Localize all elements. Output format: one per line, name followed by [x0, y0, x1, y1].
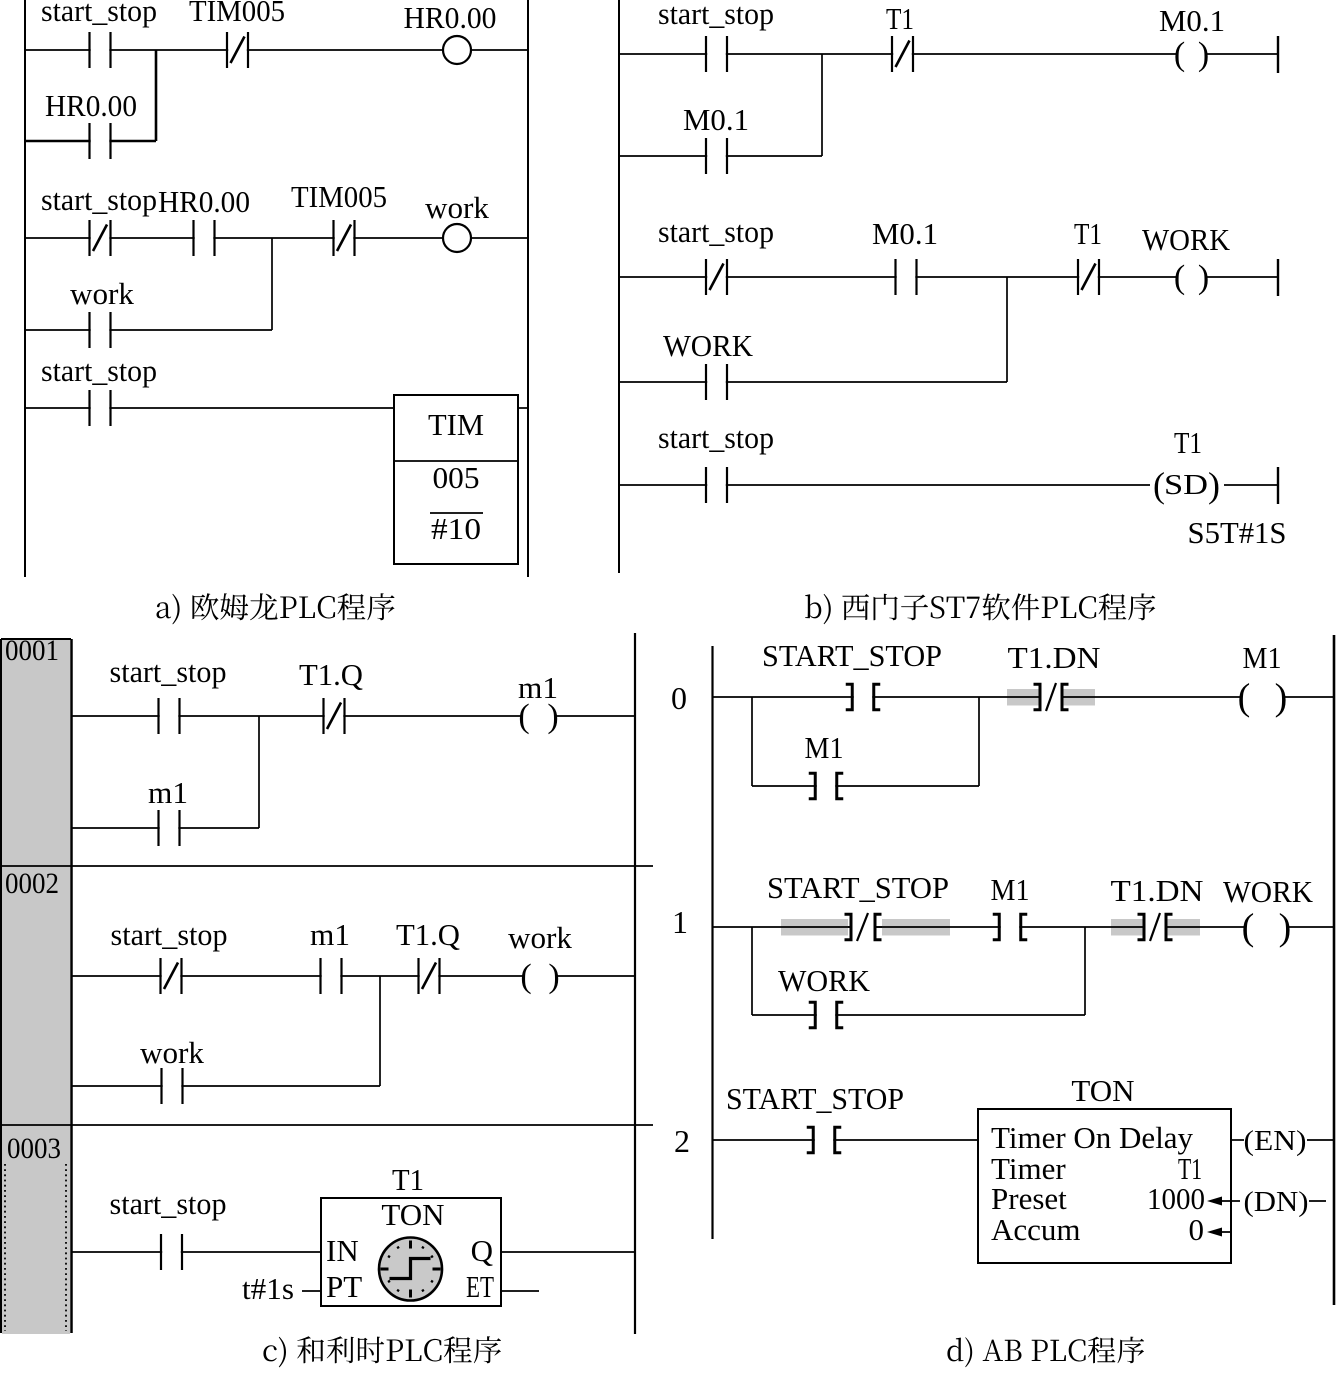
svg-text:(: (: [520, 958, 531, 995]
svg-text:T1.DN: T1.DN: [1008, 640, 1101, 675]
rung d1 wire: [713, 926, 1335, 928]
svg-text:(DN): (DN): [1244, 1186, 1309, 1218]
rung a3 wire: [25, 407, 394, 409]
contact start_stop NC (b2): [706, 259, 727, 295]
coil work (a2): [443, 224, 471, 252]
contact start_stop NC (a2): [90, 220, 111, 256]
branch wire work (c2): [71, 1085, 380, 1087]
svg-text:S5T#1S: S5T#1S: [1188, 515, 1287, 550]
dash t#1s to PT: [302, 1290, 321, 1292]
svg-text:Accum: Accum: [991, 1212, 1081, 1247]
svg-text:ET: ET: [466, 1269, 494, 1304]
svg-text:TON: TON: [381, 1197, 444, 1232]
contact start_stop NC (c2): [161, 958, 182, 994]
svg-text:T1: T1: [1074, 216, 1102, 251]
branch vertical (c2): [379, 976, 381, 1086]
svg-text:start_stop: start_stop: [110, 654, 227, 689]
network separator 1: [0, 865, 653, 867]
contact TIM005 NC (a1): [227, 32, 248, 68]
grey column dotted inner borders (network 0003): [5, 1164, 66, 1331]
svg-text:m1: m1: [518, 670, 558, 705]
svg-text:0001: 0001: [5, 635, 59, 667]
rung c3 wire to TON: [72, 1251, 322, 1253]
svg-text:): ): [1275, 677, 1288, 719]
contact m1 NO (c1 branch): [159, 810, 180, 846]
branch vertical right (d1): [1084, 927, 1086, 1015]
svg-text:(: (: [1242, 907, 1255, 949]
svg-text:#10: #10: [431, 511, 481, 546]
svg-text:work: work: [70, 276, 134, 311]
branch vertical right (d0): [978, 697, 980, 786]
svg-text:0003: 0003: [7, 1133, 61, 1165]
svg-text:start_stop: start_stop: [41, 353, 157, 388]
right rail bar (b1): [1277, 36, 1279, 73]
TON function block T1: [321, 1198, 501, 1306]
contact M0.1 NO (b2): [896, 259, 917, 295]
contact WORK NO (d1 branch): [809, 1002, 844, 1028]
svg-text:START_STOP: START_STOP: [726, 1081, 904, 1116]
contact start_stop NO (b3): [706, 467, 727, 503]
contact WORK NO (b2 branch): [706, 364, 727, 400]
contact START_STOP NO (d0): [846, 684, 881, 710]
rung a1 wire: [25, 49, 528, 51]
contact start_stop NO (b1): [706, 36, 727, 72]
svg-text:START_STOP: START_STOP: [762, 638, 942, 673]
svg-text:2: 2: [674, 1123, 690, 1159]
contact T1.DN NC highlighted (d1): [1111, 913, 1200, 941]
svg-text:M0.1: M0.1: [683, 102, 749, 137]
contact start_stop NO (c3): [161, 1234, 182, 1270]
rung b2 wire: [619, 276, 1278, 278]
TON block Timer On Delay: [978, 1109, 1231, 1263]
svg-text:work: work: [508, 920, 572, 955]
contact start_stop NO (c1): [159, 698, 180, 734]
svg-text:005: 005: [433, 460, 480, 495]
svg-text:TIM: TIM: [428, 407, 484, 442]
svg-text:start_stop: start_stop: [41, 182, 157, 217]
svg-text:WORK: WORK: [1223, 874, 1314, 909]
contact T1 NC (b1): [892, 36, 913, 72]
svg-text:WORK: WORK: [663, 328, 754, 363]
branch vertical (b1): [821, 54, 823, 156]
svg-text:(: (: [1174, 36, 1185, 73]
contact start_stop NO (a1): [90, 32, 111, 68]
branch vertical left (d0): [751, 697, 753, 786]
branch vertical (a2): [271, 238, 273, 330]
timer clock icon: [379, 1238, 442, 1301]
svg-text:m1: m1: [148, 775, 188, 810]
svg-text:): ): [1198, 259, 1209, 296]
branch vertical (c1): [258, 716, 260, 828]
svg-text:PT: PT: [326, 1269, 362, 1304]
svg-text:): ): [1279, 907, 1292, 949]
contact m1 NO (c2): [321, 958, 342, 994]
rung b3 wire: [619, 484, 1278, 486]
svg-text:(: (: [1238, 677, 1251, 719]
coil WORK (d1): [1245, 923, 1288, 932]
timer box TIM 005 #10: [394, 395, 518, 564]
svg-text:1000: 1000: [1147, 1181, 1205, 1216]
svg-text:work: work: [140, 1035, 204, 1070]
contact START_STOP NC highlighted (d1): [781, 913, 950, 941]
left power rail (d): [711, 646, 713, 1239]
svg-text:): ): [1198, 36, 1209, 73]
contact T1.DN NC highlighted (d0): [1007, 683, 1095, 711]
svg-text:start_stop: start_stop: [41, 0, 157, 28]
svg-text:IN: IN: [326, 1233, 359, 1268]
svg-text:Q: Q: [471, 1233, 493, 1268]
svg-text:T1.DN: T1.DN: [1111, 873, 1204, 908]
rung c1 wire: [71, 715, 635, 717]
rung c2 wire: [71, 975, 635, 977]
svg-text:start_stop: start_stop: [111, 917, 228, 952]
caption d) AB PLC program: [947, 1337, 1144, 1368]
contact TIM005 NC (a2): [334, 220, 355, 256]
right rail bar (b2): [1277, 259, 1279, 296]
svg-text:HR0.00: HR0.00: [45, 88, 137, 123]
svg-text:(: (: [1174, 259, 1185, 296]
branch wire M1 (d0): [752, 785, 979, 787]
network separator 2: [0, 1124, 653, 1126]
contact M0.1 NO (b1 branch): [706, 138, 727, 174]
right rail bar (b3): [1277, 467, 1279, 504]
svg-text:start_stop: start_stop: [658, 420, 774, 455]
svg-text:T1: T1: [1174, 425, 1202, 460]
left power rail c: [70, 639, 73, 1333]
contact HR0.00 NO (a2): [194, 220, 215, 256]
svg-text:0: 0: [1189, 1212, 1205, 1247]
svg-text:0: 0: [671, 680, 687, 716]
contact start_stop NO (a3): [90, 390, 111, 426]
svg-text:SD: SD: [1164, 470, 1208, 501]
svg-text:0002: 0002: [5, 868, 59, 900]
coil M0.1 (b1): [1177, 50, 1207, 59]
svg-text:M0.1: M0.1: [1159, 3, 1225, 38]
svg-text:Timer On Delay: Timer On Delay: [991, 1120, 1194, 1155]
arrow to Accum value: [1207, 1228, 1231, 1237]
right power rail (c): [634, 633, 636, 1334]
contact T1 NC (b2): [1078, 259, 1099, 295]
right power rail (d): [1333, 635, 1336, 1305]
branch wire WORK (b2): [619, 381, 1007, 383]
svg-text:T1: T1: [392, 1162, 424, 1197]
contact T1.Q NC (c2): [419, 958, 440, 994]
svg-text:START_STOP: START_STOP: [767, 870, 949, 905]
rung d0 wire: [713, 696, 1335, 698]
svg-text:WORK: WORK: [778, 963, 871, 998]
network number column grey background: [2, 639, 70, 1334]
svg-text:): ): [548, 958, 559, 995]
svg-text:T1: T1: [886, 1, 914, 36]
svg-text:1: 1: [672, 904, 688, 940]
contact START_STOP NO (d2): [807, 1127, 842, 1153]
svg-text:M1: M1: [1243, 640, 1282, 675]
branch wire m1 (c1): [71, 827, 259, 829]
svg-text:M0.1: M0.1: [872, 216, 938, 251]
contact T1.Q NC (c1): [324, 698, 345, 734]
coil work (c2): [523, 972, 557, 981]
contact M1 NO (d0 branch): [809, 773, 844, 799]
branch wire M0.1 (b1): [619, 155, 822, 157]
wire Q to right rail (c3): [501, 1251, 635, 1253]
svg-text:T1.Q: T1.Q: [396, 917, 460, 952]
left power rail (b): [618, 0, 620, 573]
svg-text:M1: M1: [991, 872, 1030, 907]
branch vertical left (d1): [751, 927, 753, 1015]
output EN: [1231, 1139, 1244, 1141]
left power rail (a): [24, 0, 26, 577]
svg-text:TIM005: TIM005: [291, 179, 387, 214]
caption c) HollySys PLC program: [263, 1336, 501, 1367]
contact work NO (a2 branch): [90, 312, 111, 348]
caption a) Omron PLC program: [157, 593, 395, 624]
branch vertical (b2): [1006, 277, 1008, 382]
svg-text:WORK: WORK: [1142, 222, 1231, 257]
svg-text:TON: TON: [1071, 1073, 1134, 1108]
svg-text:(EN): (EN): [1244, 1125, 1307, 1157]
coil T1 (SD) timer: [1150, 465, 1224, 505]
svg-text:Preset: Preset: [991, 1181, 1067, 1216]
svg-text:start_stop: start_stop: [110, 1186, 227, 1221]
contact HR0.00 NO (a1 branch): [90, 123, 111, 159]
svg-text:M1: M1: [805, 730, 844, 765]
arrow DN to Preset value: [1207, 1197, 1240, 1206]
branch wire work (a2): [25, 329, 272, 331]
contact M1 NO (d1): [993, 914, 1028, 940]
svg-text:work: work: [425, 190, 489, 225]
contact work NO (c2 branch): [162, 1068, 183, 1104]
svg-text:start_stop: start_stop: [658, 0, 774, 31]
grey column outer border: [1, 639, 71, 1333]
caption b) Siemens ST7 PLC program: [805, 593, 1155, 624]
right power rail (a): [527, 0, 529, 577]
svg-text:HR0.00: HR0.00: [404, 0, 497, 35]
svg-text:TIM005: TIM005: [189, 0, 285, 28]
branch wire HR0.00 (a1): [25, 140, 156, 143]
svg-text:): ): [1208, 465, 1220, 505]
svg-text:t#1s: t#1s: [242, 1271, 294, 1306]
coil m1 (c1): [521, 712, 556, 721]
stub ET (c3): [501, 1290, 539, 1292]
svg-text:m1: m1: [310, 917, 350, 952]
svg-text:HR0.00: HR0.00: [158, 184, 250, 219]
branch vertical (a1): [155, 50, 158, 141]
value #10 with overline: [430, 512, 483, 514]
svg-text:start_stop: start_stop: [658, 214, 774, 249]
coil HR0.00 (a1): [443, 36, 471, 64]
rung a2 wire: [25, 237, 528, 239]
coil WORK (b2): [1177, 273, 1207, 282]
stub TIM box to right rail: [518, 407, 528, 409]
svg-text:T1.Q: T1.Q: [299, 657, 363, 692]
rung d2 wire: [713, 1139, 979, 1141]
rung b1 wire: [619, 53, 1278, 55]
coil M1 (d0): [1241, 693, 1284, 702]
branch wire WORK (d1): [752, 1014, 1085, 1016]
